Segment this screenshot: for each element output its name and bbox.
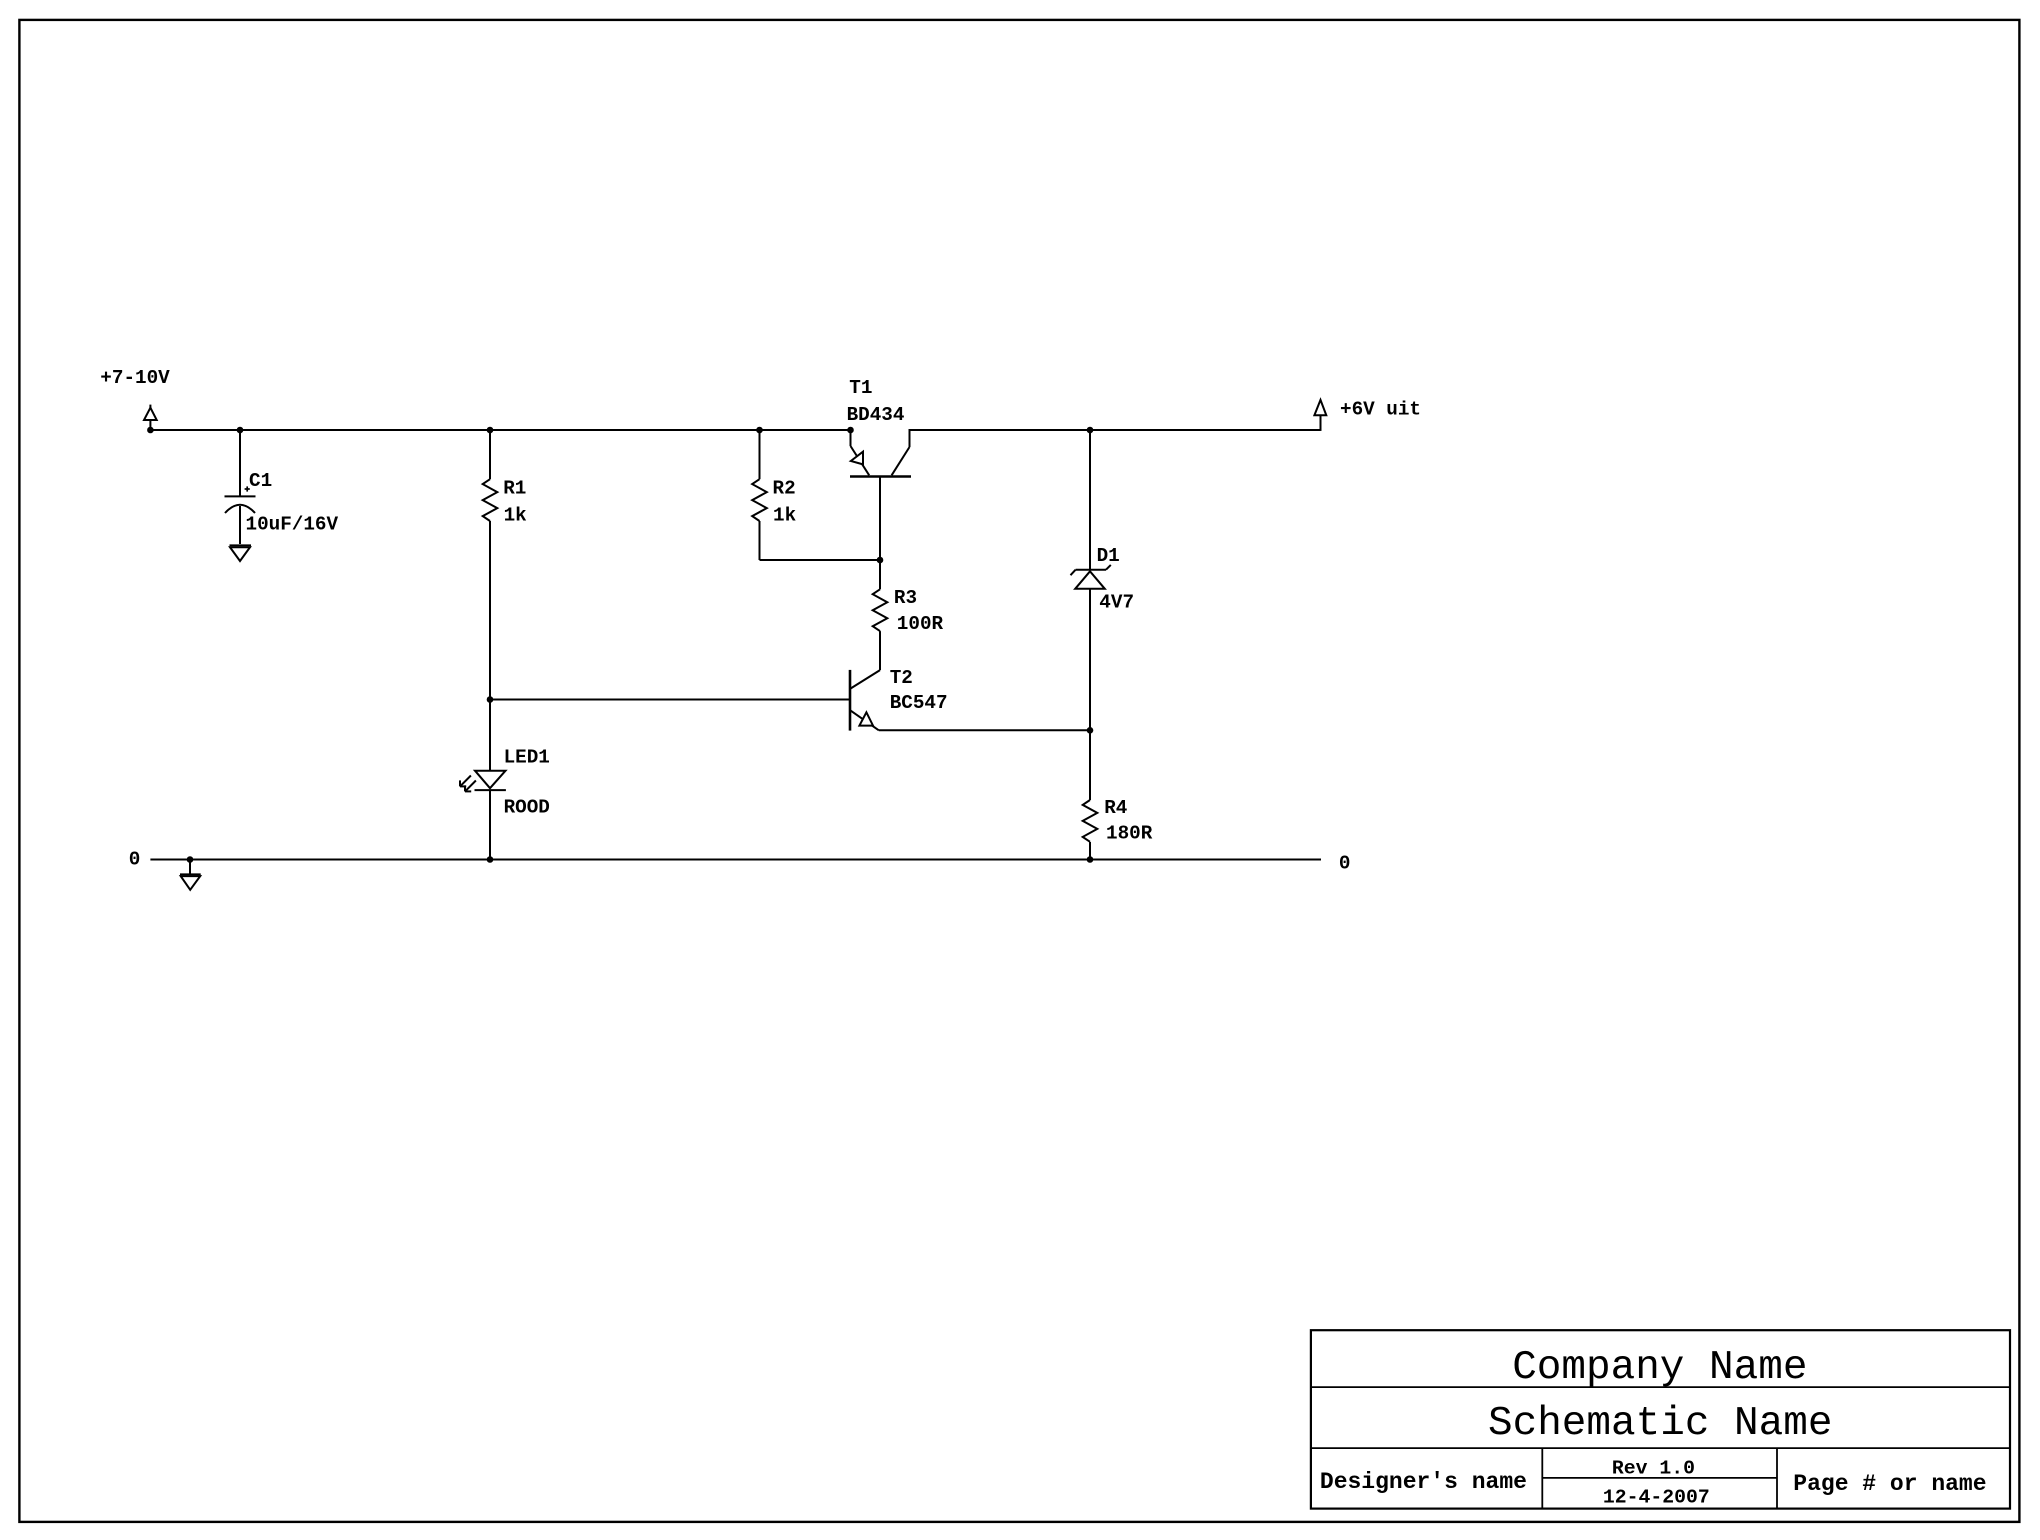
svg-text:1k: 1k <box>773 504 797 526</box>
svg-text:BC547: BC547 <box>890 692 948 714</box>
svg-text:Page # or name: Page # or name <box>1793 1471 1986 1497</box>
svg-text:BD434: BD434 <box>847 404 905 426</box>
svg-text:Rev 1.0: Rev 1.0 <box>1612 1458 1695 1480</box>
svg-text:Designer's name: Designer's name <box>1320 1469 1527 1495</box>
svg-text:R1: R1 <box>503 478 526 500</box>
svg-text:0: 0 <box>129 849 141 871</box>
svg-text:R2: R2 <box>773 478 796 500</box>
svg-text:0: 0 <box>1339 852 1351 874</box>
svg-text:R3: R3 <box>894 587 917 609</box>
svg-text:R4: R4 <box>1104 797 1127 819</box>
svg-text:T1: T1 <box>849 377 872 399</box>
svg-text:+6V uit: +6V uit <box>1340 398 1421 420</box>
svg-text:100R: 100R <box>897 613 944 635</box>
svg-text:10uF/16V: 10uF/16V <box>246 513 339 535</box>
svg-text:Company Name: Company Name <box>1512 1345 1807 1391</box>
svg-text:LED1: LED1 <box>504 746 550 768</box>
svg-text:1k: 1k <box>504 504 528 526</box>
svg-text:D1: D1 <box>1097 545 1120 567</box>
svg-text:+7-10V: +7-10V <box>100 367 170 389</box>
svg-text:180R: 180R <box>1106 823 1153 845</box>
svg-text:T2: T2 <box>890 667 913 689</box>
svg-text:Schematic Name: Schematic Name <box>1488 1401 1832 1447</box>
svg-text:ROOD: ROOD <box>504 797 550 819</box>
svg-text:C1: C1 <box>249 470 272 492</box>
svg-text:12-4-2007: 12-4-2007 <box>1603 1487 1710 1509</box>
svg-text:4V7: 4V7 <box>1099 592 1134 614</box>
